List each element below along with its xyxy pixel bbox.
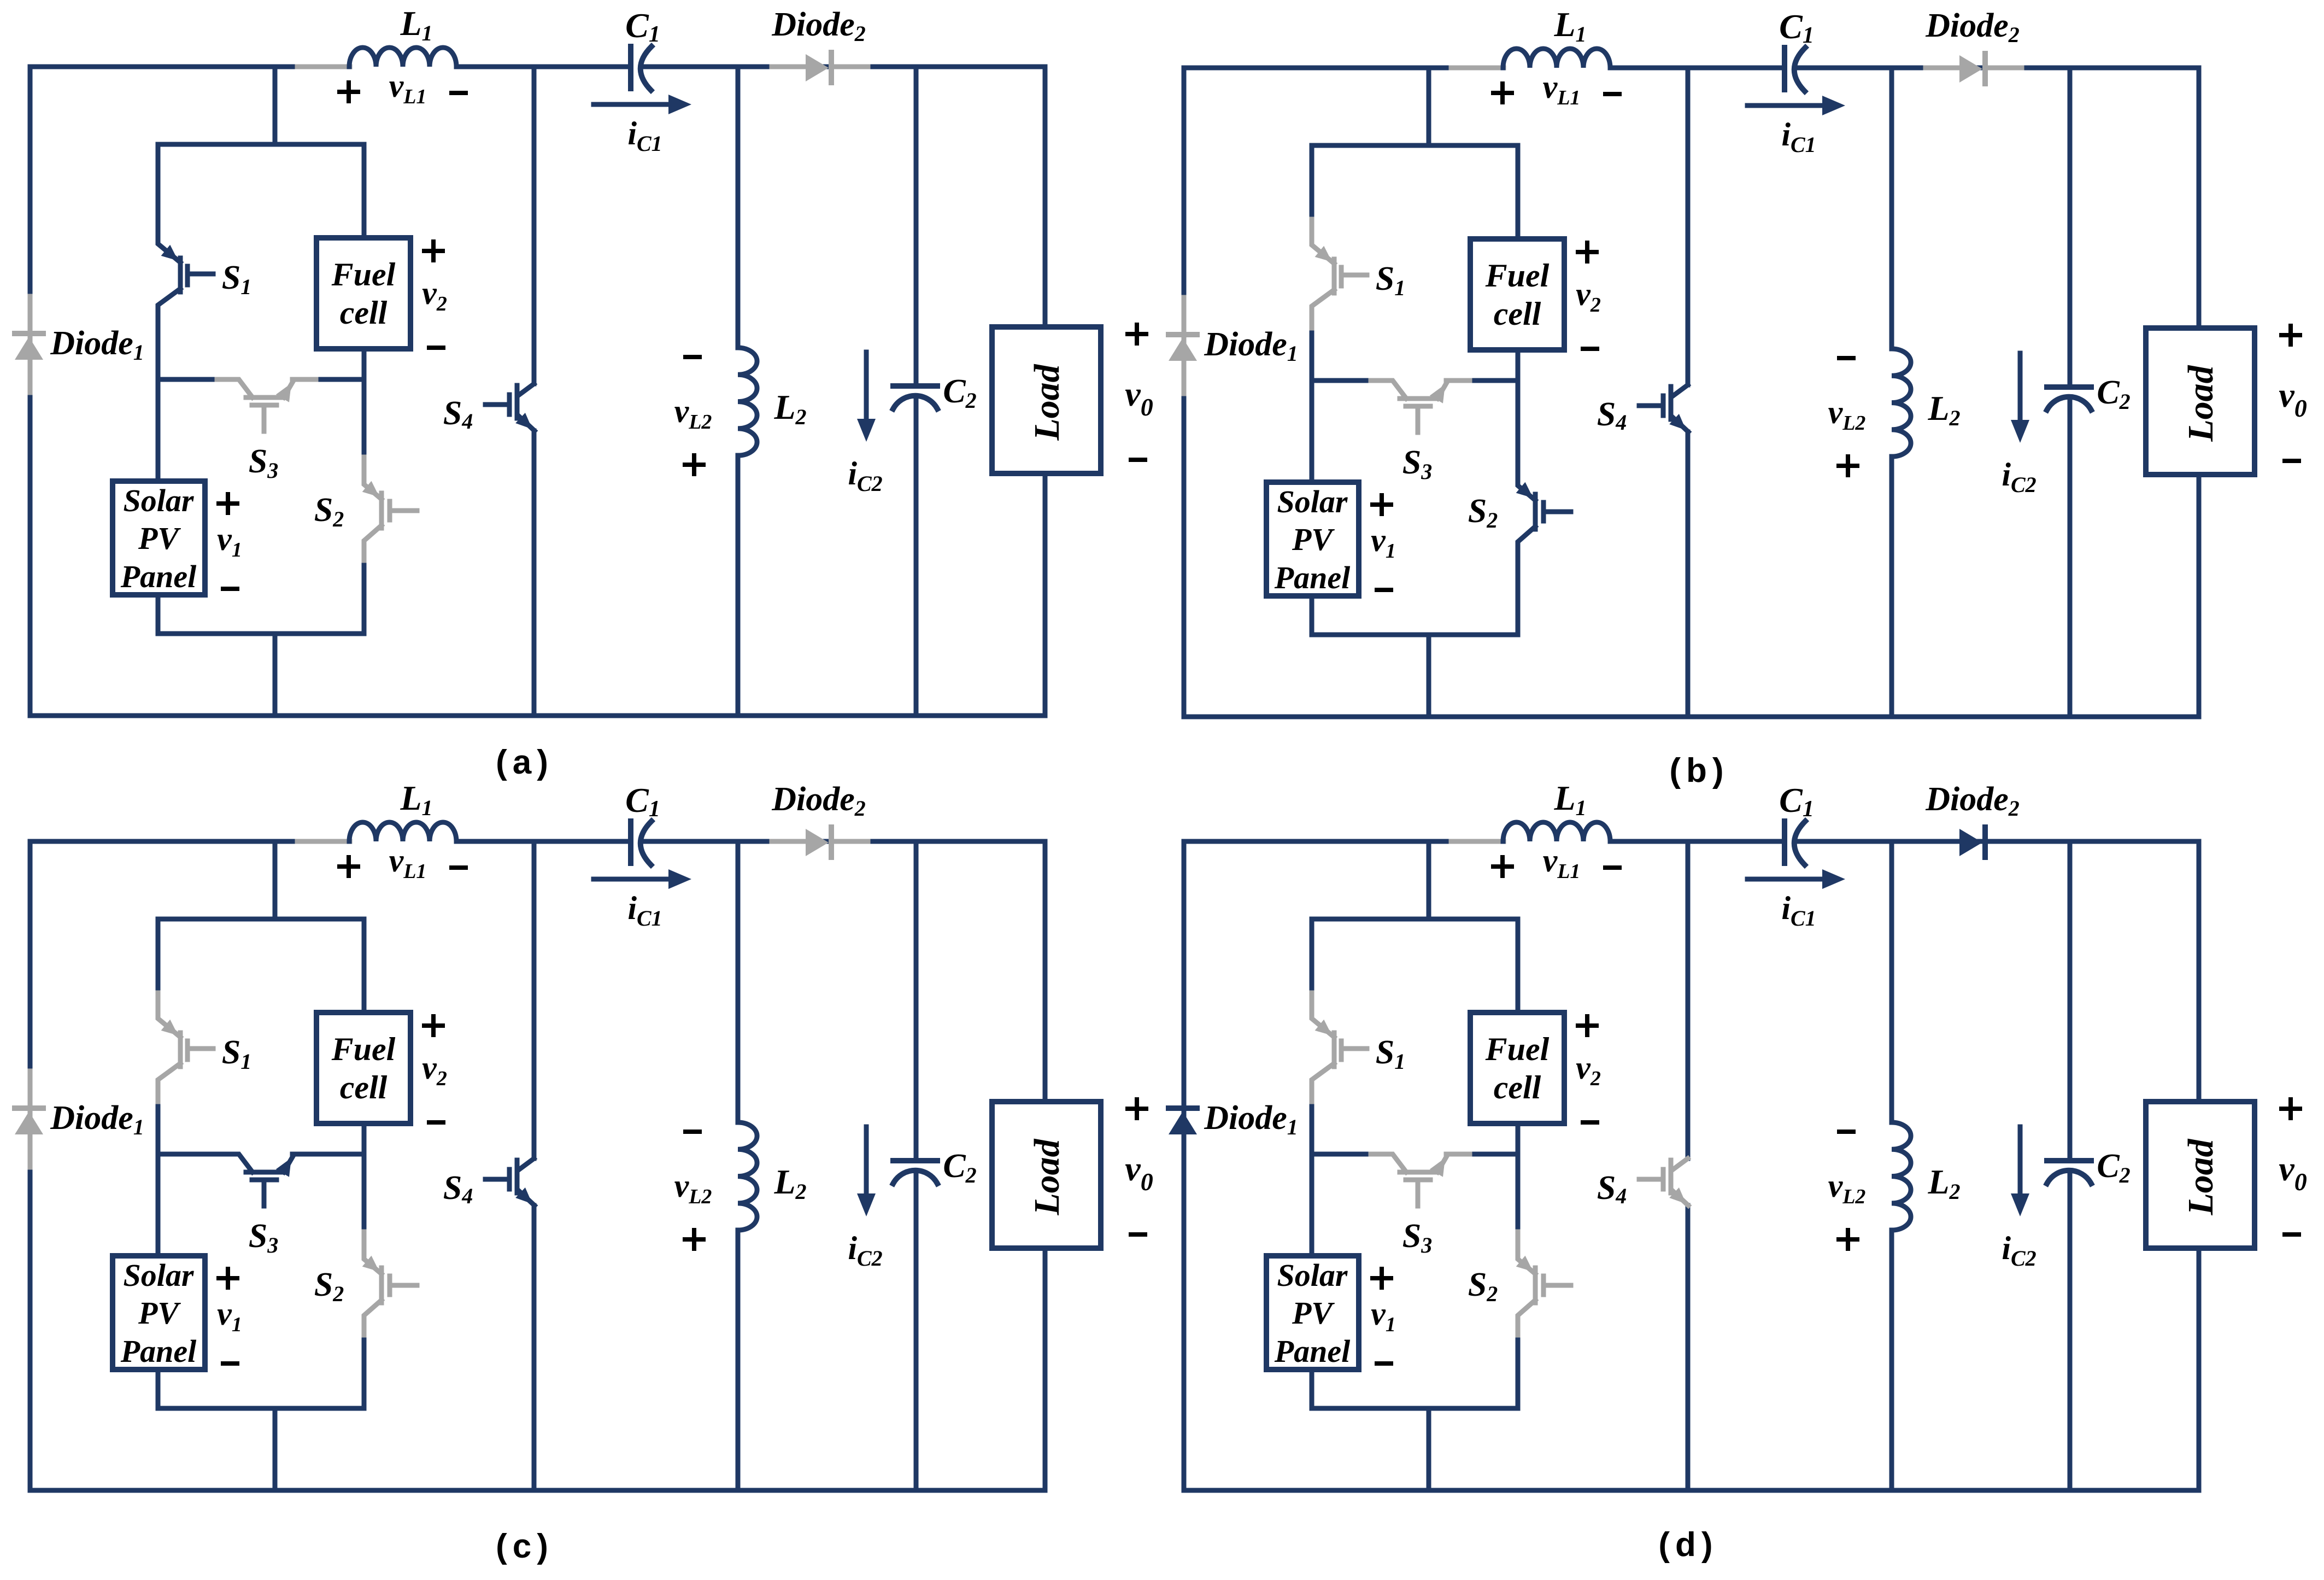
capacitor C2 (b) bbox=[2047, 384, 2091, 390]
svg-text:Fuel: Fuel bbox=[1485, 1031, 1550, 1067]
svg-text:v2: v2 bbox=[1576, 1050, 1601, 1090]
svg-text:S3: S3 bbox=[249, 1218, 278, 1257]
wire: C2 branch (b) bbox=[2068, 68, 2073, 717]
wire: left bus (a) bbox=[28, 67, 33, 716]
transistor S1 (a) bbox=[158, 218, 213, 327]
wire: left bus (d) bbox=[1182, 841, 1187, 1490]
svg-text:vL1: vL1 bbox=[389, 842, 427, 883]
svg-text:S2: S2 bbox=[314, 1266, 344, 1306]
svg-text:(b): (b) bbox=[1669, 752, 1729, 789]
svg-text:v0: v0 bbox=[1125, 374, 1153, 421]
wire: inner left rail (b) bbox=[1310, 145, 1314, 635]
label + vL1 - (d) bbox=[1493, 857, 1512, 876]
labels - vL2 + (a) bbox=[685, 355, 700, 359]
svg-text:Solar: Solar bbox=[1277, 1257, 1348, 1293]
capacitor C2 (c) bbox=[893, 1158, 937, 1163]
svg-text:(a): (a) bbox=[496, 744, 554, 781]
svg-text:PV: PV bbox=[1292, 1295, 1335, 1331]
transistor S1 (d) bbox=[1312, 993, 1367, 1102]
svg-text:Panel: Panel bbox=[120, 559, 197, 594]
arrow iC1 (a) bbox=[594, 102, 671, 107]
labels + v1 - (a) bbox=[219, 494, 237, 513]
diode Diode2 (b) bbox=[1926, 66, 1959, 71]
transistor S2 (a) bbox=[364, 457, 417, 560]
svg-text:iC2: iC2 bbox=[2002, 457, 2036, 497]
transistor S2 (b) bbox=[1518, 458, 1571, 561]
svg-text:S1: S1 bbox=[1376, 260, 1405, 300]
svg-text:S2: S2 bbox=[1468, 493, 1498, 532]
transistor S2 (d) bbox=[1518, 1232, 1571, 1335]
wire: left bus (b) bbox=[1182, 68, 1187, 717]
inductor L2 (b) bbox=[1892, 349, 1911, 457]
svg-text:S1: S1 bbox=[1376, 1034, 1405, 1074]
wire: inner top stub (a) bbox=[273, 67, 278, 144]
wire: middle link (c) bbox=[158, 1152, 364, 1157]
label + vL1 - (c) bbox=[339, 857, 358, 876]
svg-text:Diode1: Diode1 bbox=[50, 1099, 144, 1139]
solar pv panel box (a) bbox=[113, 481, 205, 595]
labels - vL2 + (c) bbox=[685, 1130, 700, 1134]
wire: middle link (b) bbox=[1312, 378, 1518, 383]
capacitor C1 (c) bbox=[628, 821, 633, 863]
fuel cell box (c) bbox=[316, 1013, 410, 1123]
svg-text:Load: Load bbox=[2181, 365, 2221, 442]
solar pv panel box (b) bbox=[1266, 482, 1359, 596]
labels + v2 - (c) bbox=[424, 1016, 443, 1035]
svg-text:Load: Load bbox=[1027, 1138, 1067, 1215]
svg-text:L1: L1 bbox=[400, 779, 432, 820]
svg-text:v1: v1 bbox=[217, 1296, 242, 1336]
svg-text:S4: S4 bbox=[1597, 396, 1627, 435]
label + vL1 - (a) bbox=[339, 83, 358, 101]
wire: inner bottom stub (b) bbox=[1427, 635, 1431, 717]
svg-text:Diode1: Diode1 bbox=[1204, 326, 1298, 366]
svg-text:L2: L2 bbox=[1927, 389, 1960, 430]
wire: inner top stub (d) bbox=[1427, 841, 1431, 919]
wire: bottom bus (a) bbox=[30, 713, 1045, 718]
svg-text:PV: PV bbox=[138, 520, 181, 556]
svg-text:C1: C1 bbox=[1779, 7, 1814, 48]
wire: inner left rail (d) bbox=[1310, 919, 1314, 1408]
diode Diode1 (b) bbox=[1182, 297, 1187, 394]
wire: top bus (b) bbox=[1184, 66, 2199, 71]
svg-text:PV: PV bbox=[138, 1295, 181, 1331]
transistor S3 (c) bbox=[217, 1154, 316, 1206]
svg-text:Fuel: Fuel bbox=[331, 1031, 396, 1067]
svg-text:(c): (c) bbox=[496, 1528, 554, 1565]
wire: left bus (c) bbox=[28, 841, 33, 1490]
wire: C2 branch (c) bbox=[914, 841, 919, 1490]
inductor L1 (d) bbox=[1503, 822, 1610, 841]
wire: inner left rail (c) bbox=[156, 919, 161, 1408]
svg-text:C1: C1 bbox=[1779, 781, 1814, 822]
svg-text:v2: v2 bbox=[1576, 276, 1601, 317]
inductor L2 (d) bbox=[1892, 1122, 1911, 1230]
svg-text:S2: S2 bbox=[1468, 1266, 1498, 1306]
wire: inner right rail (b) bbox=[1516, 145, 1521, 635]
labels - vL2 + (b) bbox=[1839, 356, 1853, 360]
capacitor C2 (d) bbox=[2047, 1158, 2091, 1163]
arrow iC1 (c) bbox=[594, 877, 671, 882]
wire: L2 branch (d) bbox=[1889, 841, 1894, 1490]
inductor L1 (b) bbox=[1503, 49, 1610, 68]
svg-text:S3: S3 bbox=[1402, 1218, 1432, 1257]
svg-text:v1: v1 bbox=[1371, 1296, 1396, 1336]
fuel cell box (d) bbox=[1470, 1013, 1564, 1123]
svg-text:vL1: vL1 bbox=[1543, 842, 1581, 883]
arrow iC1 (b) bbox=[1747, 103, 1825, 108]
svg-text:iC1: iC1 bbox=[627, 890, 662, 931]
svg-text:v1: v1 bbox=[1371, 522, 1396, 563]
svg-text:S1: S1 bbox=[222, 1034, 251, 1074]
label + vL1 - (b) bbox=[1493, 84, 1512, 102]
diode Diode1 (a) bbox=[28, 296, 33, 393]
svg-text:PV: PV bbox=[1292, 522, 1335, 557]
capacitor C1 (b) bbox=[1782, 48, 1787, 90]
svg-text:vL2: vL2 bbox=[1828, 394, 1866, 435]
labels + v0 - (c) bbox=[1128, 1099, 1146, 1118]
svg-text:S3: S3 bbox=[249, 443, 278, 483]
svg-text:iC1: iC1 bbox=[1781, 890, 1816, 931]
svg-text:vL2: vL2 bbox=[1828, 1168, 1866, 1208]
wire: inner left rail (a) bbox=[156, 144, 161, 634]
wire: inner right rail (a) bbox=[362, 144, 367, 634]
wire: top bus (a) bbox=[30, 65, 1045, 69]
transistor S1 (b) bbox=[1312, 219, 1367, 328]
svg-text:Diode2: Diode2 bbox=[771, 781, 866, 821]
wire: L2 branch (b) bbox=[1889, 68, 1894, 717]
labels + v2 - (b) bbox=[1578, 243, 1597, 261]
load box (b) bbox=[2146, 328, 2255, 475]
transistor S4 (c) bbox=[485, 1158, 535, 1206]
svg-text:vL1: vL1 bbox=[1543, 69, 1581, 109]
wire: inner loop top edge (d) bbox=[1312, 917, 1518, 922]
wire: C2 branch (d) bbox=[2068, 841, 2073, 1490]
svg-text:v0: v0 bbox=[2279, 1149, 2307, 1196]
fuel cell box (b) bbox=[1470, 239, 1564, 350]
svg-text:Diode2: Diode2 bbox=[771, 6, 866, 46]
svg-text:Solar: Solar bbox=[1277, 484, 1348, 519]
svg-text:v2: v2 bbox=[422, 275, 447, 315]
svg-text:C2: C2 bbox=[943, 1148, 976, 1187]
wire: right bus / load branch (c) bbox=[1043, 841, 1048, 1490]
svg-text:v0: v0 bbox=[2279, 376, 2307, 422]
wire: middle link (a) bbox=[158, 377, 364, 382]
wire: faded joint segment on top bus (c) bbox=[297, 839, 350, 844]
wire: inner loop bottom edge (d) bbox=[1312, 1406, 1518, 1411]
solar pv panel box (d) bbox=[1266, 1256, 1359, 1370]
capacitor C2 (a) bbox=[893, 383, 937, 389]
svg-text:v0: v0 bbox=[1125, 1149, 1153, 1196]
svg-text:iC2: iC2 bbox=[2002, 1230, 2036, 1271]
labels + v2 - (d) bbox=[1578, 1016, 1597, 1035]
svg-text:L1: L1 bbox=[1553, 5, 1586, 46]
labels + v1 - (c) bbox=[219, 1269, 237, 1288]
wire: right bus / load branch (d) bbox=[2197, 841, 2202, 1490]
wire: bottom bus (d) bbox=[1184, 1488, 2199, 1493]
transistor S3 (d) bbox=[1371, 1154, 1470, 1206]
diode Diode2 (a) bbox=[772, 65, 806, 69]
inductor L2 (a) bbox=[738, 348, 757, 455]
wire: top bus (d) bbox=[1184, 839, 2199, 844]
transistor S4 (b) bbox=[1639, 385, 1688, 432]
wire: inner loop bottom edge (a) bbox=[158, 631, 364, 636]
svg-text:iC1: iC1 bbox=[627, 115, 662, 156]
load box (d) bbox=[2146, 1102, 2255, 1248]
wire: faded joint segment on top bus (d) bbox=[1451, 839, 1504, 844]
svg-text:C1: C1 bbox=[625, 6, 660, 47]
wire: inner top stub (b) bbox=[1427, 68, 1431, 145]
svg-text:iC1: iC1 bbox=[1781, 116, 1816, 157]
wire: inner loop bottom edge (c) bbox=[158, 1406, 364, 1411]
wire: inner right rail (c) bbox=[362, 919, 367, 1408]
wire: inner loop top edge (b) bbox=[1312, 143, 1518, 148]
svg-text:S4: S4 bbox=[443, 395, 473, 434]
svg-text:Panel: Panel bbox=[1274, 1333, 1351, 1369]
wire: L2 branch (a) bbox=[736, 67, 741, 716]
arrow iC2 (c) bbox=[864, 1127, 869, 1196]
svg-text:Solar: Solar bbox=[124, 483, 194, 518]
transistor S4 (a) bbox=[485, 384, 535, 431]
svg-text:vL2: vL2 bbox=[674, 393, 712, 434]
wire: inner loop bottom edge (b) bbox=[1312, 633, 1518, 637]
wire: right bus / load branch (b) bbox=[2197, 68, 2202, 717]
svg-text:Diode1: Diode1 bbox=[50, 325, 144, 365]
svg-text:Load: Load bbox=[2181, 1138, 2221, 1215]
svg-text:cell: cell bbox=[1494, 296, 1541, 332]
solar pv panel box (c) bbox=[113, 1256, 205, 1370]
svg-text:Solar: Solar bbox=[124, 1257, 194, 1293]
arrow iC1 (d) bbox=[1747, 877, 1825, 882]
wire: faded joint segment on top bus (a) bbox=[297, 65, 350, 69]
svg-text:Diode2: Diode2 bbox=[1925, 7, 2020, 47]
wire: inner right rail (d) bbox=[1516, 919, 1521, 1408]
wire: top bus (c) bbox=[30, 839, 1045, 844]
diode Diode1 (d) bbox=[1169, 1105, 1197, 1111]
wire: middle link (d) bbox=[1312, 1152, 1518, 1157]
load box (a) bbox=[992, 327, 1101, 473]
arrow iC2 (a) bbox=[864, 352, 869, 421]
labels + v2 - (a) bbox=[424, 242, 443, 260]
load box (c) bbox=[992, 1102, 1101, 1248]
labels + v0 - (a) bbox=[1128, 325, 1146, 343]
inductor L1 (c) bbox=[349, 822, 456, 841]
svg-text:v1: v1 bbox=[217, 521, 242, 561]
inductor L2 (c) bbox=[738, 1122, 757, 1230]
wire: S4 branch (a) bbox=[532, 67, 537, 716]
labels - vL2 + (d) bbox=[1839, 1130, 1853, 1134]
svg-text:vL1: vL1 bbox=[389, 68, 427, 108]
labels + v1 - (b) bbox=[1372, 495, 1391, 514]
wire: inner top stub (c) bbox=[273, 841, 278, 919]
wire: faded joint segment on top bus (b) bbox=[1451, 66, 1504, 71]
svg-text:Fuel: Fuel bbox=[331, 256, 396, 292]
wire: inner bottom stub (d) bbox=[1427, 1408, 1431, 1490]
svg-text:C2: C2 bbox=[2097, 1148, 2130, 1187]
svg-text:Panel: Panel bbox=[1274, 560, 1351, 595]
svg-text:L1: L1 bbox=[400, 4, 432, 45]
arrow iC2 (b) bbox=[2018, 353, 2023, 422]
capacitor C1 (d) bbox=[1782, 821, 1787, 863]
svg-text:cell: cell bbox=[340, 295, 388, 331]
wire: L2 branch (c) bbox=[736, 841, 741, 1490]
svg-text:Load: Load bbox=[1027, 364, 1067, 441]
wire: bottom bus (b) bbox=[1184, 715, 2199, 719]
transistor S3 (b) bbox=[1371, 381, 1470, 432]
svg-text:iC2: iC2 bbox=[848, 1230, 882, 1271]
diode Diode2 (d) bbox=[1959, 829, 1982, 856]
transistor S1 (c) bbox=[158, 993, 213, 1102]
svg-text:cell: cell bbox=[1494, 1069, 1541, 1105]
svg-text:L2: L2 bbox=[1927, 1162, 1960, 1204]
svg-text:C1: C1 bbox=[625, 781, 660, 822]
svg-text:L1: L1 bbox=[1553, 779, 1586, 820]
wire: inner loop top edge (c) bbox=[158, 917, 364, 922]
wire: inner bottom stub (c) bbox=[273, 1408, 278, 1490]
svg-text:Diode2: Diode2 bbox=[1925, 781, 2020, 821]
svg-text:L2: L2 bbox=[773, 1162, 806, 1204]
diode Diode2 (c) bbox=[772, 839, 806, 844]
transistor S2 (c) bbox=[364, 1232, 417, 1335]
labels + v1 - (d) bbox=[1372, 1269, 1391, 1288]
fuel cell box (a) bbox=[316, 238, 410, 349]
svg-text:vL2: vL2 bbox=[674, 1168, 712, 1208]
wire: S4 branch (b) bbox=[1686, 68, 1691, 717]
svg-text:Diode1: Diode1 bbox=[1204, 1099, 1298, 1139]
svg-text:v2: v2 bbox=[422, 1050, 447, 1090]
transistor S3 (a) bbox=[217, 379, 316, 431]
wire: S4 branch (c) bbox=[532, 841, 537, 1490]
wire: bottom bus (c) bbox=[30, 1488, 1045, 1493]
svg-text:S3: S3 bbox=[1402, 444, 1432, 484]
diode Diode1 (c) bbox=[28, 1071, 33, 1167]
wire: inner bottom stub (a) bbox=[273, 634, 278, 716]
arrow iC2 (d) bbox=[2018, 1127, 2023, 1196]
svg-text:Fuel: Fuel bbox=[1485, 258, 1550, 294]
wire: S4 branch (d) bbox=[1686, 841, 1691, 1490]
labels + v0 - (b) bbox=[2281, 326, 2300, 344]
svg-text:C2: C2 bbox=[2097, 374, 2130, 414]
svg-text:S4: S4 bbox=[443, 1169, 473, 1208]
svg-text:S1: S1 bbox=[222, 259, 251, 299]
inductor L1 (a) bbox=[349, 48, 456, 67]
svg-text:iC2: iC2 bbox=[848, 455, 882, 496]
svg-text:cell: cell bbox=[340, 1069, 388, 1105]
svg-text:S4: S4 bbox=[1597, 1169, 1627, 1208]
svg-text:L2: L2 bbox=[773, 388, 806, 429]
svg-text:C2: C2 bbox=[943, 373, 976, 413]
capacitor C1 (a) bbox=[628, 46, 633, 89]
svg-text:Panel: Panel bbox=[120, 1333, 197, 1369]
transistor S4 (d) bbox=[1639, 1158, 1688, 1206]
svg-text:(d): (d) bbox=[1658, 1526, 1718, 1564]
wire: right bus / load branch (a) bbox=[1043, 67, 1048, 716]
wire: inner loop top edge (a) bbox=[158, 142, 364, 147]
svg-text:S2: S2 bbox=[314, 491, 344, 531]
labels + v0 - (d) bbox=[2281, 1099, 2300, 1118]
wire: C2 branch (a) bbox=[914, 67, 919, 716]
